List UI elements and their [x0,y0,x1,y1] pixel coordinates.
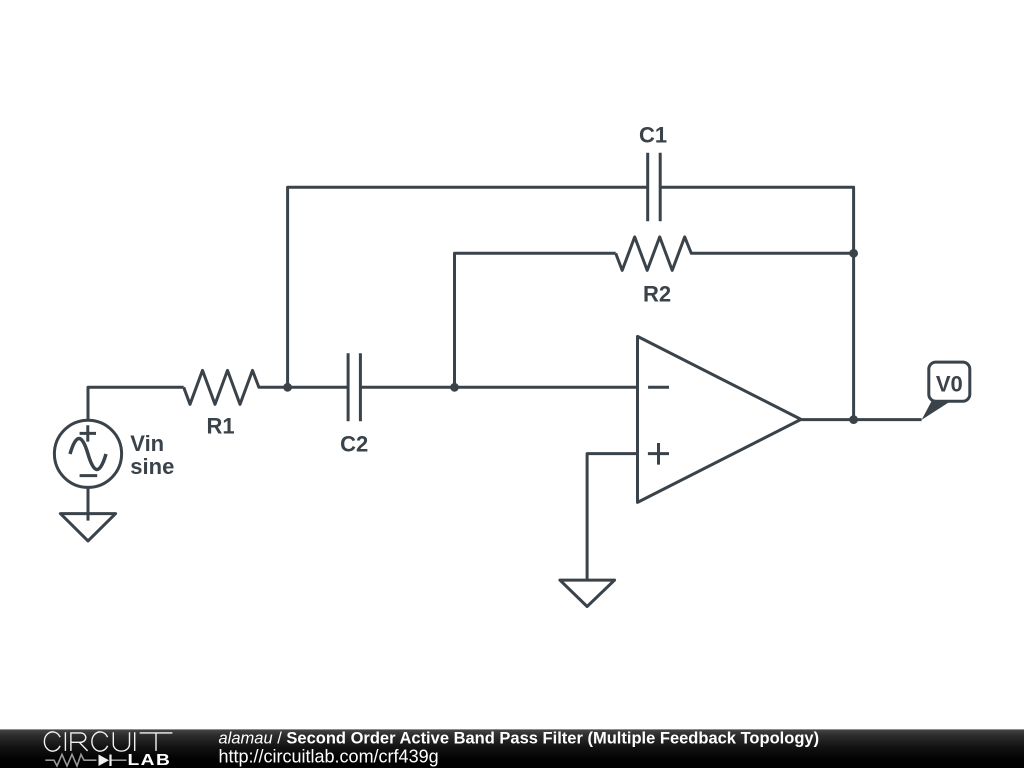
svg-text:R1: R1 [206,414,234,439]
node junction C2/R2 [450,383,459,392]
wire output [801,418,922,421]
wire C2 left [288,386,349,389]
svg-text:LAB: LAB [128,751,172,768]
node junction output [849,415,858,424]
svg-text:C2: C2 [340,432,368,457]
resistor R1 [184,370,288,404]
op-amp plus sign [648,443,669,465]
wire C2 node up to R2 [455,253,616,387]
flag V0 tail [922,401,951,420]
capacitor C1 [648,153,661,222]
op-amp minus sign [648,386,669,389]
op-amp U1 [638,336,802,502]
resistor R2 [616,237,854,271]
Vin plus sign [80,425,96,441]
Vin minus sign [80,474,98,477]
svg-text:R2: R2 [643,282,671,307]
wire Vin bottom lead [87,487,90,520]
voltage source Vin [54,420,121,487]
svg-text:sine: sine [130,454,174,479]
svg-text:V0: V0 [936,372,963,397]
logo CIRCUIT word [44,732,172,751]
wire C1 to right vertical [660,187,853,419]
svg-text:Vin: Vin [130,431,164,456]
wire C2 right to op-amp minus [360,386,637,389]
ground under op-amp plus [560,580,615,606]
node junction R2/right wire [849,249,858,258]
svg-text:http://circuitlab.com/crf439g: http://circuitlab.com/crf439g [219,746,439,766]
logo diode [99,755,110,767]
Vin sine glyph [70,439,106,470]
wire op-amp plus input [587,454,637,580]
svg-text:C1: C1 [639,123,667,148]
svg-text:alamau / Second Order Active B: alamau / Second Order Active Band Pass F… [219,730,820,748]
capacitor C2 [348,353,360,421]
wire Vin top lead to R1 [88,387,184,420]
wire node up to C1 [288,187,648,387]
node junction at R1/C2 [283,383,292,392]
flag V0 box [929,362,970,401]
ground under Vin [60,514,115,541]
logo resistor-diode row [45,754,126,766]
